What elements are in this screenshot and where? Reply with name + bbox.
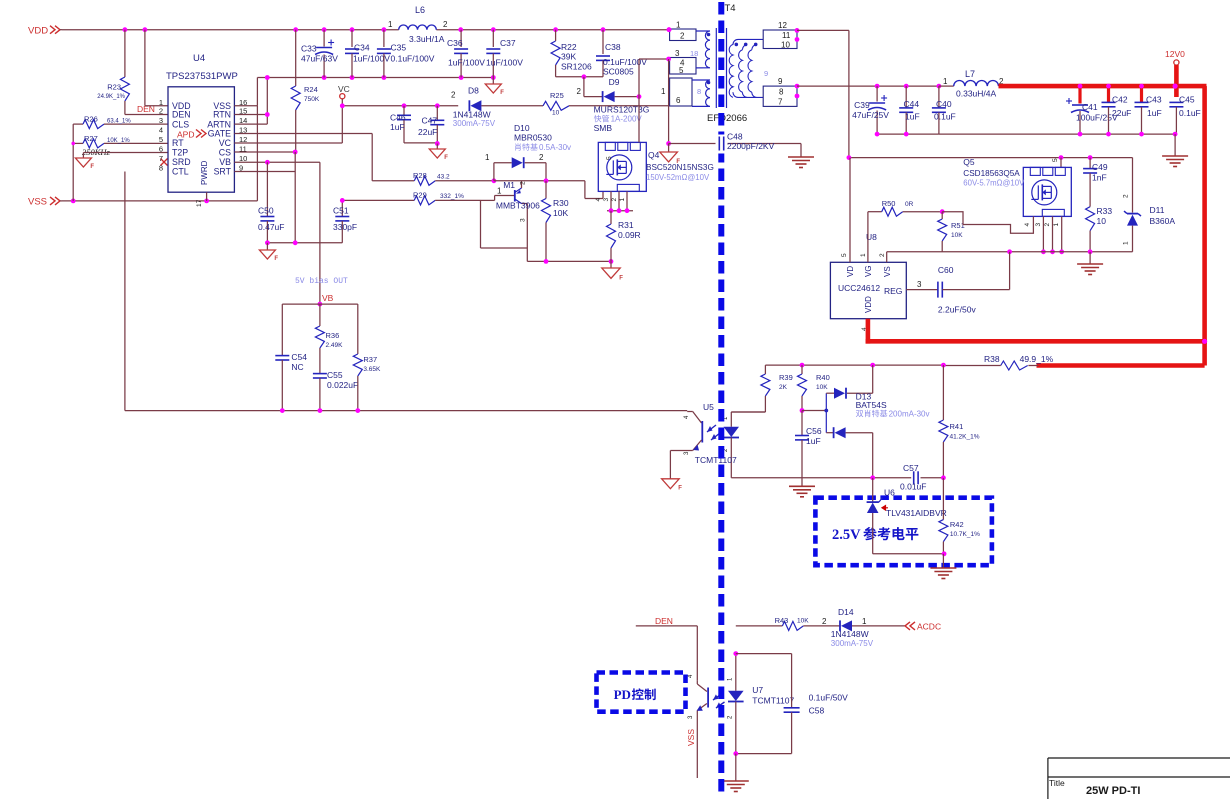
svg-text:R30: R30 — [553, 198, 569, 208]
transformer T4 pin box 12 11 10 — [763, 21, 799, 50]
box 2.5V reference — [815, 498, 992, 566]
transformer T4 core — [716, 28, 726, 108]
svg-text:60V-5.7mΩ@10V: 60V-5.7mΩ@10V — [963, 179, 1025, 188]
earth ground output caps — [1078, 132, 1189, 167]
svg-text:CS: CS — [219, 148, 231, 158]
resistor R22 — [551, 30, 592, 77]
transistor Q4 BSC520N15NS3G — [595, 142, 714, 201]
svg-text:C51: C51 — [333, 206, 349, 216]
svg-text:1nF: 1nF — [1092, 173, 1107, 183]
resistor R26 — [73, 115, 168, 129]
diode D10 MBR0530 — [485, 123, 571, 181]
svg-text:C40: C40 — [936, 99, 952, 109]
wire CS pin11 — [234, 151, 295, 153]
svg-text:R27: R27 — [84, 134, 98, 143]
ground F R31 — [602, 261, 623, 281]
wire C48 line — [666, 59, 801, 146]
svg-text:C50: C50 — [258, 206, 274, 216]
wire pin1 VDD — [145, 30, 168, 106]
svg-text:0.33uH/4A: 0.33uH/4A — [956, 89, 996, 99]
svg-text:C54: C54 — [291, 352, 307, 362]
wire feedback bottom bus — [731, 475, 946, 480]
svg-text:63.4_1%: 63.4_1% — [107, 119, 131, 125]
svg-text:7: 7 — [778, 98, 783, 107]
svg-text:SR1206: SR1206 — [561, 62, 592, 72]
svg-text:0.01uF: 0.01uF — [900, 482, 926, 492]
wire SRT column — [234, 152, 295, 243]
ground F primary — [660, 144, 681, 165]
svg-text:2.49K: 2.49K — [326, 342, 344, 349]
svg-text:39K: 39K — [561, 52, 576, 62]
earth ground U7 — [723, 754, 749, 792]
svg-text:200mA-30v: 200mA-30v — [889, 410, 930, 419]
wire U8 VS pin2 — [886, 252, 888, 262]
svg-text:VSS: VSS — [686, 729, 696, 746]
resistor R39 — [731, 365, 792, 412]
svg-text:3.3uH/1A: 3.3uH/1A — [409, 34, 445, 44]
capacitor C54 — [275, 304, 307, 411]
svg-text:22uF: 22uF — [418, 127, 437, 137]
capacitor C60 — [938, 252, 1010, 315]
svg-text:D10: D10 — [514, 123, 530, 133]
transformer T4 pin box 6 — [670, 78, 702, 106]
svg-text:1uF/100V: 1uF/100V — [448, 58, 485, 68]
svg-text:F: F — [500, 90, 504, 96]
svg-text:5: 5 — [606, 156, 613, 160]
svg-text:R41: R41 — [950, 422, 964, 431]
wire SR source bus — [887, 249, 1133, 254]
label 5V bias OUT — [295, 277, 348, 286]
svg-text:F: F — [619, 275, 623, 281]
svg-text:MBR0530: MBR0530 — [514, 133, 552, 143]
wire C50 C51 bottom bus — [265, 240, 342, 245]
transformer T4 pin box 3 4 5 — [670, 49, 699, 75]
svg-text:1uF/100V: 1uF/100V — [486, 58, 523, 68]
box PD control — [597, 673, 686, 712]
wire secondary output line — [797, 84, 941, 89]
svg-text:0.5A-30v: 0.5A-30v — [539, 143, 571, 152]
svg-text:VDD: VDD — [864, 296, 873, 313]
svg-text:C45: C45 — [1179, 95, 1195, 105]
wire VC line — [340, 103, 458, 108]
resistor R28 — [413, 171, 494, 185]
svg-text:8: 8 — [779, 87, 784, 96]
svg-text:TPS237531PWP: TPS237531PWP — [166, 71, 238, 82]
diode D9 MURS120T3G — [584, 77, 666, 133]
svg-text:U4: U4 — [193, 53, 205, 64]
svg-text:3: 3 — [917, 280, 922, 289]
transistor M1 MMBT3906 — [495, 180, 541, 248]
svg-text:SRD: SRD — [172, 157, 191, 167]
svg-text:C55: C55 — [327, 370, 343, 380]
wire 12V thick red rail — [999, 86, 1207, 365]
capacitor C44 — [899, 86, 919, 134]
svg-text:VD: VD — [846, 266, 855, 277]
port 12V0 — [1165, 49, 1185, 97]
resistor R31 — [607, 211, 641, 262]
svg-text:SC0805: SC0805 — [603, 67, 634, 77]
node R28 D10 junction — [492, 178, 497, 183]
wire VB rail — [282, 303, 358, 305]
svg-text:2K: 2K — [779, 384, 788, 391]
wire VB pin10 — [234, 160, 320, 304]
title block — [1048, 758, 1230, 799]
diode D11 B360A — [1123, 158, 1176, 252]
capacitor C38 — [596, 30, 647, 77]
svg-text:10K_1%: 10K_1% — [107, 138, 130, 144]
svg-text:TCMT1107: TCMT1107 — [695, 455, 737, 465]
svg-text:5: 5 — [1052, 158, 1059, 162]
svg-text:750K: 750K — [304, 96, 320, 103]
label 250KHz — [82, 147, 111, 157]
capacitor C50 — [258, 162, 284, 243]
svg-text:2: 2 — [822, 617, 827, 626]
resistor R24 — [291, 30, 320, 152]
svg-text:10: 10 — [239, 154, 247, 163]
svg-text:DEN: DEN — [655, 616, 673, 626]
svg-text:150V-52mΩ@10V: 150V-52mΩ@10V — [646, 173, 710, 182]
svg-text:18: 18 — [690, 49, 698, 58]
svg-text:R39: R39 — [779, 373, 793, 382]
wire cap bottom bus — [257, 75, 495, 80]
capacitor C45 — [1169, 95, 1200, 135]
wire Q4 source pins — [607, 191, 633, 213]
capacitor C58 — [733, 654, 848, 756]
svg-text:R29: R29 — [413, 191, 427, 200]
resistor R36 — [315, 304, 343, 373]
wire M1 collector to CS line — [481, 200, 614, 263]
svg-text:3: 3 — [603, 198, 610, 202]
label VB — [322, 293, 334, 303]
diode D8 1N4148W — [451, 86, 543, 129]
wire secondary gnd bus left — [875, 132, 1175, 137]
transformer T4 primary winding W2 — [692, 80, 710, 106]
label DEN — [137, 104, 155, 114]
capacitor C57 — [900, 463, 926, 492]
svg-text:RT: RT — [172, 138, 184, 148]
diode D13 BAT54S — [802, 365, 930, 478]
svg-text:C48: C48 — [727, 132, 743, 142]
svg-text:10K: 10K — [951, 232, 963, 239]
svg-text:9: 9 — [778, 77, 783, 86]
svg-text:2: 2 — [611, 198, 618, 202]
wire pin12 to U8 feed — [797, 30, 849, 157]
svg-text:8: 8 — [159, 164, 163, 173]
svg-text:U6: U6 — [884, 488, 895, 498]
svg-text:3: 3 — [1035, 223, 1042, 227]
svg-text:8: 8 — [697, 87, 701, 96]
svg-text:0R: 0R — [905, 201, 914, 208]
earth ground C48 — [788, 144, 814, 168]
U4 pin labels — [159, 98, 248, 185]
svg-text:D9: D9 — [609, 77, 620, 87]
svg-text:332_1%: 332_1% — [440, 193, 464, 200]
optocoupler U7 TCMT1107 — [688, 654, 794, 778]
wire DEN pin2 — [125, 114, 168, 116]
resistor R42 — [939, 478, 980, 556]
svg-text:47uF/63V: 47uF/63V — [301, 54, 338, 64]
wire SR drain rail — [847, 155, 1133, 160]
svg-text:PD: PD — [614, 687, 631, 702]
transformer T4 secondary winding — [729, 39, 768, 97]
capacitor C34 — [345, 30, 390, 78]
wire Q4 drain — [638, 59, 640, 142]
svg-text:7: 7 — [159, 154, 163, 163]
svg-text:1uF: 1uF — [1147, 108, 1162, 118]
svg-text:1: 1 — [1053, 223, 1060, 227]
resistor R27 — [73, 134, 168, 148]
svg-text:1uF: 1uF — [390, 122, 405, 132]
capacitor C55 — [313, 370, 358, 411]
svg-text:0.1uF/100V: 0.1uF/100V — [391, 54, 435, 64]
svg-text:EFD2066: EFD2066 — [707, 113, 747, 124]
svg-text:GATE: GATE — [208, 129, 231, 139]
capacitor C36 — [447, 30, 485, 78]
svg-text:R25: R25 — [550, 91, 564, 100]
svg-text:10K: 10K — [816, 384, 828, 391]
label DEN bottom — [655, 616, 673, 626]
capacitor C48 — [716, 132, 775, 154]
svg-text:2: 2 — [539, 153, 544, 162]
svg-text:47uF/25V: 47uF/25V — [852, 110, 889, 120]
svg-text:6: 6 — [676, 96, 681, 105]
svg-text:41.2K_1%: 41.2K_1% — [950, 434, 980, 441]
svg-text:VDD: VDD — [28, 26, 48, 37]
svg-text:43.2: 43.2 — [437, 174, 450, 181]
capacitor C37 — [486, 30, 523, 78]
svg-text:C56: C56 — [806, 426, 822, 436]
svg-text:C57: C57 — [903, 463, 919, 473]
svg-text:1: 1 — [860, 253, 867, 257]
svg-text:12: 12 — [778, 21, 787, 30]
svg-text:M1: M1 — [503, 180, 515, 190]
svg-text:6: 6 — [159, 145, 163, 154]
svg-text:R43: R43 — [775, 616, 789, 625]
wire CTL to U5 bus — [125, 172, 687, 414]
wire thick red to R38 — [1037, 363, 1205, 368]
earth ground R33 — [1077, 252, 1103, 275]
svg-text:17: 17 — [196, 199, 203, 207]
inductor L7 — [939, 69, 1004, 99]
wire T2P pin6 to ground — [83, 153, 168, 159]
capacitor C43 — [1135, 84, 1162, 134]
svg-text:BAT54S: BAT54S — [856, 400, 887, 410]
svg-text:C47: C47 — [422, 116, 438, 126]
svg-text:R26: R26 — [84, 115, 98, 124]
svg-text:C42: C42 — [1112, 95, 1128, 105]
svg-text:C39: C39 — [854, 100, 870, 110]
svg-text:5V bias OUT: 5V bias OUT — [295, 277, 348, 286]
svg-text:0.47uF: 0.47uF — [258, 222, 284, 232]
resistor R29 — [340, 191, 495, 205]
wire U8 VD pin5 — [849, 158, 851, 263]
label PD control — [614, 687, 656, 702]
svg-text:0.1uF/50V: 0.1uF/50V — [809, 693, 849, 703]
svg-text:VB: VB — [322, 293, 334, 303]
svg-text:2200pF/2KV: 2200pF/2KV — [727, 141, 775, 151]
op-amp U8 UCC24612 box — [830, 232, 922, 331]
svg-text:CSD18563Q5A: CSD18563Q5A — [963, 169, 1020, 178]
svg-text:D11: D11 — [1150, 205, 1165, 215]
wire R22 C38 bottom — [556, 74, 603, 79]
svg-text:0.09R: 0.09R — [618, 230, 641, 240]
label VSS bottom — [686, 729, 696, 746]
svg-text:UCC24612: UCC24612 — [838, 283, 880, 293]
port VDD — [28, 26, 62, 37]
svg-text:10.7K_1%: 10.7K_1% — [950, 531, 980, 538]
svg-text:1: 1 — [661, 87, 666, 96]
ground F U5 — [662, 479, 683, 492]
svg-text:1N4148W: 1N4148W — [831, 629, 869, 639]
svg-text:11: 11 — [782, 31, 791, 40]
svg-text:L7: L7 — [965, 69, 975, 79]
resistor R38 — [943, 354, 1053, 370]
transistor Q5 CSD18563Q5A — [963, 157, 1071, 227]
capacitor C56 — [795, 411, 822, 487]
svg-text:2: 2 — [159, 107, 163, 116]
earth ground R42 — [930, 554, 956, 579]
svg-text:VSS: VSS — [28, 197, 47, 208]
svg-text:C44: C44 — [904, 99, 920, 109]
svg-text:2: 2 — [1123, 194, 1130, 198]
svg-text:C60: C60 — [938, 265, 954, 275]
svg-text:1: 1 — [497, 187, 502, 196]
svg-text:R40: R40 — [816, 373, 830, 382]
svg-text:25W PD-TI: 25W PD-TI — [1086, 785, 1140, 797]
svg-text:SMB: SMB — [594, 123, 613, 133]
svg-text:Q5: Q5 — [963, 157, 975, 167]
svg-text:F: F — [90, 164, 94, 170]
svg-text:C35: C35 — [391, 43, 407, 53]
svg-text:1: 1 — [619, 198, 626, 202]
node VC — [338, 84, 350, 143]
svg-text:300mA-75V: 300mA-75V — [453, 119, 496, 128]
wire R26 R27 left vertical — [71, 124, 75, 201]
optocoupler U5 TCMT1107 — [670, 402, 739, 479]
svg-text:MMBT3906: MMBT3906 — [496, 201, 540, 211]
svg-text:U7: U7 — [752, 685, 763, 695]
svg-text:Title: Title — [1049, 778, 1065, 788]
resistor R23 — [97, 30, 129, 115]
svg-text:2: 2 — [451, 91, 456, 100]
svg-text:C58: C58 — [809, 706, 825, 716]
svg-text:R23: R23 — [107, 83, 121, 92]
resistor R37 — [353, 304, 381, 411]
ground F cap bus — [485, 78, 504, 97]
ground F C50 — [259, 243, 278, 262]
svg-text:C34: C34 — [354, 43, 370, 53]
svg-text:330pF: 330pF — [333, 222, 357, 232]
svg-text:R24: R24 — [304, 85, 318, 94]
wire U8 VG pin1 to R50 — [868, 212, 882, 263]
wire U8 REG pin3 to C60 — [906, 289, 938, 291]
svg-text:12V0: 12V0 — [1165, 49, 1185, 59]
svg-text:22uF: 22uF — [1112, 108, 1131, 118]
svg-text:TLV431AIDBVR: TLV431AIDBVR — [886, 508, 947, 518]
wire U8 VDD pin4 thick red — [866, 319, 1208, 344]
capacitor C51 — [333, 200, 357, 242]
wire VC pin12 — [234, 142, 342, 144]
ground F T2P — [75, 158, 94, 170]
svg-text:10K: 10K — [797, 618, 809, 625]
svg-text:3: 3 — [159, 116, 163, 125]
svg-text:RTN: RTN — [213, 110, 231, 120]
svg-text:2: 2 — [680, 32, 685, 41]
resistor R33 — [1086, 206, 1113, 252]
node VB junction — [318, 302, 323, 307]
svg-text:1: 1 — [388, 20, 393, 29]
earth ground C56 — [789, 486, 815, 497]
label T4 — [725, 3, 736, 14]
capacitor C40 — [932, 86, 956, 134]
svg-text:3: 3 — [520, 218, 527, 222]
svg-text:10: 10 — [552, 110, 560, 117]
svg-text:2: 2 — [879, 253, 886, 257]
svg-text:1: 1 — [676, 21, 681, 30]
transformer T4 pin box 9 8 7 — [763, 77, 799, 107]
svg-text:PWRD: PWRD — [200, 160, 209, 185]
svg-text:R31: R31 — [618, 220, 634, 230]
mark X pin7 SRD — [161, 159, 168, 166]
svg-text:C49: C49 — [1092, 162, 1108, 172]
svg-text:Q4: Q4 — [648, 150, 660, 160]
svg-text:VG: VG — [864, 265, 873, 277]
ground F C46 C47 — [429, 144, 448, 162]
wire VSS rail up at right — [256, 106, 258, 201]
wire to D9 anode — [577, 77, 584, 97]
svg-text:R33: R33 — [1097, 206, 1113, 216]
capacitor C47 — [418, 106, 444, 144]
port ACDC — [905, 622, 941, 632]
svg-text:9: 9 — [764, 69, 768, 78]
svg-text:5: 5 — [679, 66, 684, 75]
svg-text:4: 4 — [595, 198, 602, 202]
svg-text:D14: D14 — [838, 607, 854, 617]
svg-text:5: 5 — [159, 135, 163, 144]
wire Q5 source pins — [1041, 216, 1064, 254]
svg-text:NC: NC — [291, 362, 303, 372]
wire gate drive to Q4 — [585, 181, 603, 199]
svg-text:U5: U5 — [703, 402, 714, 412]
svg-text:F: F — [444, 155, 448, 161]
svg-text:2.2uF/50v: 2.2uF/50v — [938, 305, 977, 315]
svg-text:VC: VC — [219, 138, 232, 148]
svg-text:1: 1 — [485, 153, 490, 162]
svg-text:300mA-75V: 300mA-75V — [831, 639, 874, 648]
resistor R41 — [939, 365, 980, 478]
wire pin16 VSS to cap bus — [234, 78, 257, 106]
svg-text:ACDC: ACDC — [917, 622, 941, 632]
svg-text:T4: T4 — [725, 3, 736, 14]
svg-text:0.022uF: 0.022uF — [327, 380, 358, 390]
svg-text:C46: C46 — [390, 113, 406, 123]
svg-text:2: 2 — [443, 20, 448, 29]
resistor R43 — [733, 616, 840, 656]
svg-text:2: 2 — [520, 181, 527, 185]
svg-text:0.1uF: 0.1uF — [934, 112, 956, 122]
svg-text:1: 1 — [1123, 241, 1130, 245]
svg-text:R22: R22 — [561, 42, 577, 52]
svg-text:VC: VC — [338, 84, 350, 94]
inductor L6 — [388, 5, 448, 44]
node D9 drain junction — [637, 94, 642, 99]
svg-text:10: 10 — [781, 41, 790, 50]
wire GATE route — [234, 134, 414, 181]
wire feedback top bus — [765, 363, 945, 368]
svg-text:CTL: CTL — [172, 167, 189, 177]
wire isolation barrier — [718, 2, 724, 796]
wire VSS rail — [62, 199, 257, 204]
